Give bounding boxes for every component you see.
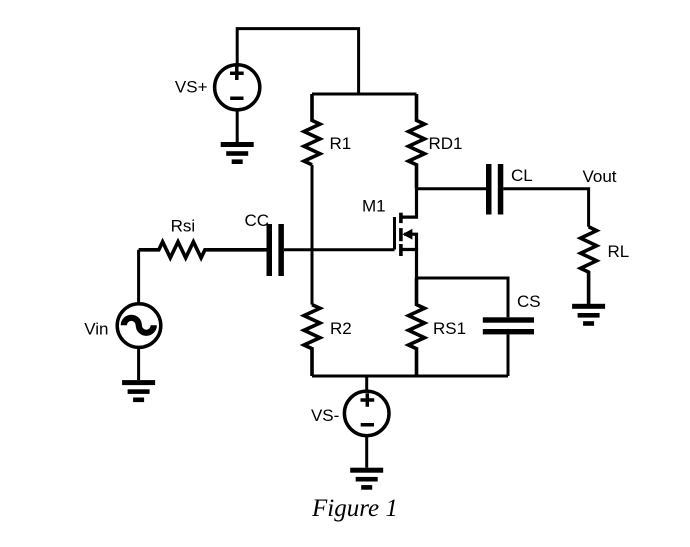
svg-text:RL: RL [608,242,630,261]
wire Vin to ground [137,347,140,380]
resistor RS1 [409,278,425,376]
wire top bus [312,93,417,96]
resistor R1 [304,94,320,165]
wire R1 to R2 (gate bias column) [311,165,314,305]
svg-text:RS1: RS1 [433,319,466,338]
wire top from VS+ to right vertical [237,29,358,94]
drain lead [401,189,417,217]
svg-text:VS+: VS+ [175,78,208,97]
wire Vin to Rsi [137,250,140,304]
capacitor CC [267,224,284,276]
capacitor CS [483,317,534,376]
wire bus to VS- [365,376,368,390]
body lead with arrow [404,234,417,249]
svg-text:Figure 1: Figure 1 [311,495,398,522]
source Vin (sine) [117,304,161,348]
svg-text:Vout: Vout [583,167,617,186]
svg-text:Vin: Vin [84,320,108,339]
resistor RD1 [409,94,425,189]
svg-text:VS-: VS- [311,406,339,425]
svg-text:Rsi: Rsi [171,217,196,236]
wire VS- to ground [365,436,368,468]
wire source row to CS [417,278,509,317]
svg-text:R1: R1 [330,134,352,153]
wire CL to Vout corner [503,189,588,227]
gate bar [393,217,396,250]
svg-text:CL: CL [511,166,533,185]
channel segment body [399,228,403,241]
svg-text:M1: M1 [362,197,386,216]
channel segment source-side [399,244,403,256]
svg-text:CS: CS [517,292,541,311]
source VS- [344,391,389,436]
transistor M1 (NMOS) [395,189,417,278]
source lead [401,250,417,279]
ground (RL) [572,304,605,326]
capacitor CL [486,164,503,215]
ground (VS-) [350,468,383,490]
svg-text:CC: CC [245,211,270,230]
channel segment drain-side [399,213,403,223]
wire VS+ to ground [236,111,239,142]
wire bottom bus [312,375,508,378]
resistor Rsi [139,242,267,258]
source VS+ [215,65,260,110]
wire gate row: CC to gate [284,248,395,251]
svg-text:RD1: RD1 [429,134,463,153]
ground (Vin) [122,380,155,402]
svg-text:R2: R2 [330,319,352,338]
resistor R2 [304,305,320,376]
ground (VS+) [221,142,254,164]
wire drain node to CL [417,187,487,190]
resistor RL [581,227,597,304]
